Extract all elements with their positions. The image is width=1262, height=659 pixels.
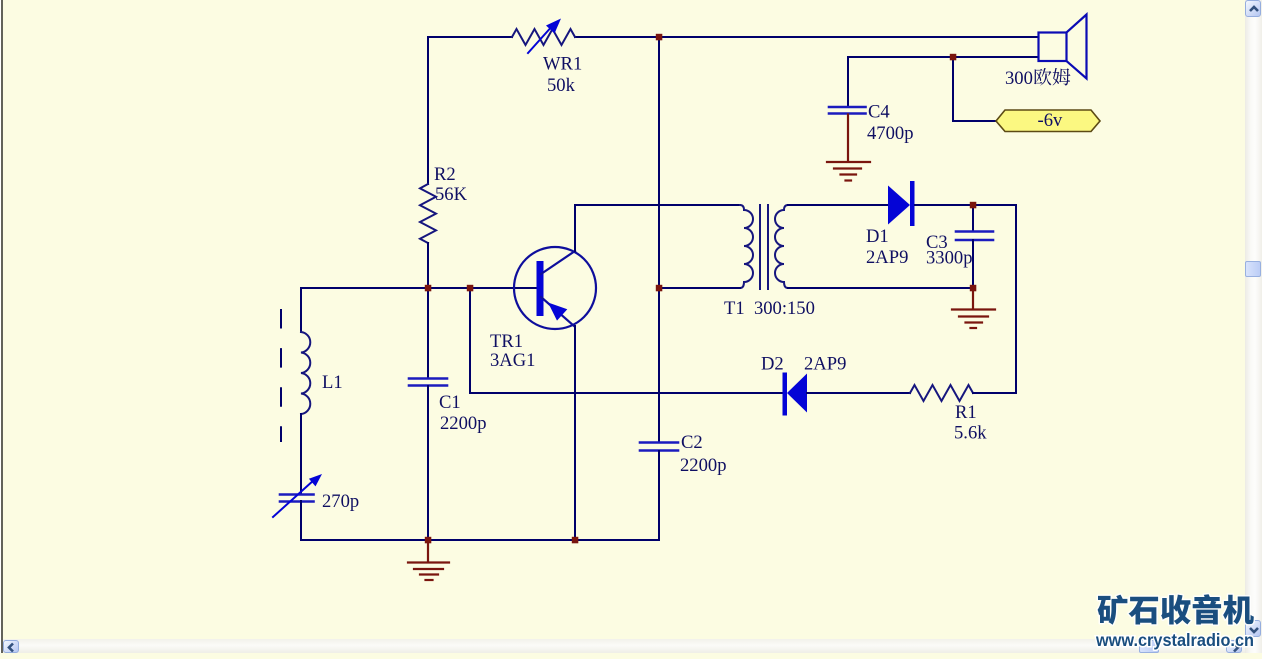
variable capacitor 270p arrow (273, 474, 322, 517)
wire -6v drop (953, 57, 996, 121)
capacitor C3 (956, 232, 993, 241)
wire left bottom (300, 501, 302, 540)
transformer T1 core (760, 205, 768, 289)
transformer T1 secondary (775, 205, 788, 288)
potentiometer WR1 arrow (528, 19, 561, 54)
left window edge white (0, 0, 1, 653)
wire L1 top (300, 288, 302, 332)
wire base row (301, 287, 537, 289)
antenna dashed line (280, 310, 282, 441)
wire primary bottom (659, 287, 740, 289)
wire speaker lower feed (848, 56, 1038, 58)
horizontal scrollbar thumb (1139, 640, 1159, 653)
variable capacitor 270p plates (280, 495, 314, 502)
transistor TR1 collector line (541, 251, 575, 274)
capacitor C1 (409, 379, 447, 386)
transformer T1 primary (740, 205, 753, 288)
vertical scrollbar (1245, 0, 1262, 653)
resistor R2 (420, 184, 436, 243)
junction node dots (425, 34, 977, 544)
svg-text:www.crystalradio.cn: www.crystalradio.cn (1095, 630, 1254, 650)
wire D2 to R1 (807, 392, 910, 394)
wire base drop and D2 row (470, 288, 783, 393)
ground below C3 (952, 288, 995, 328)
wire top rail (428, 36, 1038, 38)
wire secondary top to D1 (788, 204, 888, 206)
vertical scrollbar down button (1245, 620, 1261, 637)
wire emitter down (574, 326, 576, 540)
wire right rail (1015, 205, 1017, 393)
wire x659 rail upper (658, 37, 660, 442)
wire x659 rail lower (658, 451, 660, 540)
transistor TR1 emitter line (541, 297, 574, 326)
watermark CJK title (1098, 594, 1254, 624)
potentiometer WR1 zigzag (512, 29, 575, 45)
power flag -6v (996, 110, 1100, 132)
capacitor C2 (640, 443, 678, 451)
wire R1 to right rail (973, 392, 1016, 394)
wire C4 top corner (847, 57, 849, 106)
transistor TR1 circle (514, 247, 596, 329)
inductor L1 (301, 332, 310, 414)
label speaker ohm CJK (1034, 68, 1071, 86)
vertical scrollbar up button (1245, 0, 1261, 17)
wire collector up and over (575, 205, 740, 251)
wire left rail lower (427, 243, 429, 288)
wire C3 lower (972, 240, 974, 288)
wire C1 lower (427, 386, 429, 540)
wire secondary bottom (788, 287, 973, 289)
transistor TR1 emitter arrow (548, 303, 567, 321)
wire L1 bottom (300, 414, 302, 494)
diode D2 (783, 373, 808, 416)
wire left rail upper (427, 37, 429, 184)
capacitor C4 (829, 107, 866, 114)
watermark url (1095, 630, 1254, 650)
horizontal scrollbar left button (3, 640, 19, 653)
ground below bottom rail (408, 540, 449, 580)
wire D1 to right corner (915, 204, 1016, 206)
diode D1 (888, 181, 915, 226)
vertical scrollbar thumb (1245, 261, 1261, 277)
transistor TR1 base bar (537, 261, 544, 316)
wire bottom rail (301, 539, 659, 541)
wire C1 upper (427, 288, 429, 378)
resistor R1 (910, 385, 973, 401)
left window edge dark (1, 0, 3, 653)
wire C3 upper (972, 205, 974, 231)
horizontal scrollbar right button (1226, 640, 1242, 653)
speaker (1039, 15, 1087, 79)
ground below C4 (827, 115, 870, 181)
horizontal scrollbar (3, 639, 1245, 653)
